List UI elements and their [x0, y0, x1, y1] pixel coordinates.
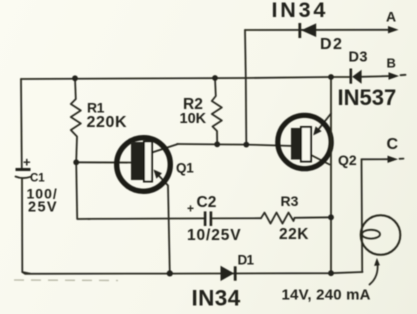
wire top rail right of D3 to B arrow — [361, 75, 392, 78]
svg-text:D2: D2 — [320, 36, 343, 53]
svg-text:IN34: IN34 — [272, 0, 329, 22]
Q1 bar black — [131, 142, 143, 180]
Q2 emitter wire diagonal up — [316, 114, 331, 133]
Q1 emitter wire diagonal and down — [155, 172, 170, 274]
junction node top rail R2 — [212, 75, 218, 81]
junction node bottom rail Q1 emitter — [167, 270, 173, 276]
svg-text:Q2: Q2 — [338, 152, 357, 168]
junction node R2 bottom coupling line — [214, 141, 220, 147]
svg-text:C2: C2 — [197, 194, 217, 211]
wire bottom rail — [22, 272, 362, 274]
Q1 envelope circle — [117, 138, 171, 192]
junction node R1 bottom Q1 base — [73, 159, 79, 165]
diode D3 — [350, 69, 362, 84]
wire A branch horizontal — [245, 29, 389, 31]
arrow terminal C — [388, 156, 399, 163]
Q2 bar white highlight — [301, 127, 311, 162]
svg-text:C1: C1 — [30, 172, 45, 184]
wire A branch vertical — [245, 30, 246, 145]
wire right vertical x=331 — [330, 77, 332, 273]
wire lamp vertical — [361, 159, 364, 272]
diode D1 — [221, 266, 237, 281]
wire left rail lower (C1 bottom to bottom rail) — [22, 178, 30, 274]
svg-text:B: B — [387, 56, 396, 71]
wire dash after B — [401, 74, 406, 76]
svg-text:R3: R3 — [281, 193, 299, 209]
transistor Q2 — [278, 114, 331, 169]
lamp pointer curved arrow — [370, 263, 378, 285]
Q2 bar black — [291, 128, 300, 160]
wire C2 line left segment — [88, 217, 204, 220]
svg-text:A: A — [386, 9, 396, 25]
svg-text:25V: 25V — [28, 200, 58, 216]
Q1 emitter arrowhead — [154, 170, 163, 179]
resistor R3 — [261, 213, 331, 224]
Q1 bar white highlight — [144, 142, 152, 182]
junction node R3 right vertical — [328, 214, 334, 220]
capacitor C1 — [16, 168, 31, 178]
transistor Q1 — [76, 138, 178, 274]
arrow terminal A — [388, 26, 399, 33]
svg-text:IN537: IN537 — [338, 85, 397, 110]
scan shadow under bottom rail — [14, 279, 118, 282]
svg-text:R1: R1 — [87, 99, 105, 115]
capacitor C2 — [204, 211, 212, 226]
junction node A-branch coupling line — [243, 142, 249, 148]
resistor R2 — [212, 78, 222, 144]
lamp bulb — [361, 215, 401, 255]
svg-text:10/25V: 10/25V — [187, 227, 242, 244]
svg-text:220K: 220K — [87, 114, 128, 131]
svg-text:D1: D1 — [238, 252, 255, 267]
wire C2 to R3 — [213, 217, 262, 219]
wire C branch: corner to arrow — [362, 158, 391, 160]
wire R1 bottom down to C2 line — [76, 162, 90, 219]
svg-text:D3: D3 — [349, 49, 368, 65]
junction node top rail right vertical — [328, 74, 334, 80]
junction node bottom rail right vertical — [328, 270, 334, 276]
svg-text:10K: 10K — [180, 111, 207, 127]
Q2 emitter arrowhead — [313, 126, 321, 135]
Q2 envelope circle — [278, 115, 331, 168]
wire left rail upper (to C1 top) — [20, 79, 23, 169]
svg-text:+: + — [23, 155, 31, 170]
svg-text:22K: 22K — [279, 226, 309, 243]
svg-text:14V, 240 mA: 14V, 240 mA — [282, 286, 371, 303]
junction node top rail R1 — [72, 75, 78, 81]
svg-text:C: C — [387, 136, 399, 153]
svg-text:Q1: Q1 — [176, 161, 194, 176]
svg-text:+: + — [187, 201, 194, 215]
svg-text:IN34: IN34 — [192, 285, 241, 310]
diode D2 — [298, 23, 316, 38]
arrow terminal B — [389, 72, 400, 79]
resistor R1 — [71, 78, 81, 162]
wire dash after C — [400, 158, 404, 160]
wire coupling line Q1 collector to Q2 base — [177, 144, 294, 146]
lamp pointer arrowhead — [374, 258, 380, 266]
wire top rail — [21, 77, 350, 79]
Q1 base wire — [76, 161, 140, 163]
Q2 collector wire diagonal down — [311, 155, 330, 165]
Q1 collector wire diagonal — [152, 144, 178, 153]
